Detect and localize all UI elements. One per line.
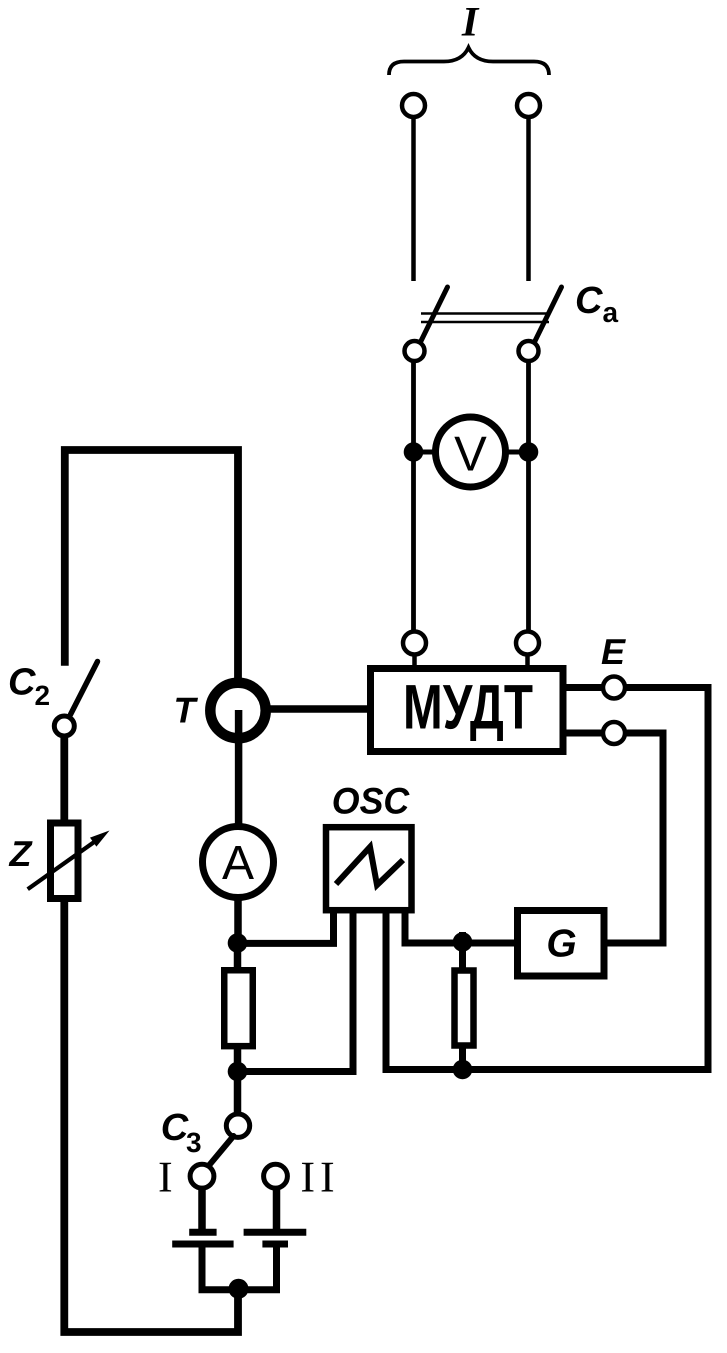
svg-text:II: II <box>300 1152 339 1201</box>
svg-text:A: A <box>222 837 254 890</box>
svg-text:OSC: OSC <box>332 781 411 822</box>
svg-text:Z: Z <box>9 833 34 874</box>
svg-text:I: I <box>461 0 480 46</box>
svg-text:C: C <box>575 280 603 322</box>
svg-text:2: 2 <box>35 680 51 711</box>
svg-text:C: C <box>8 661 36 703</box>
svg-text:G: G <box>546 922 576 965</box>
svg-text:3: 3 <box>186 1127 202 1158</box>
svg-text:МУДТ: МУДТ <box>403 673 533 743</box>
svg-text:V: V <box>454 428 487 482</box>
svg-text:T: T <box>174 690 199 731</box>
svg-text:a: a <box>603 297 619 328</box>
svg-text:E: E <box>601 631 626 672</box>
svg-text:C: C <box>161 1107 189 1149</box>
svg-text:I: I <box>158 1152 173 1201</box>
